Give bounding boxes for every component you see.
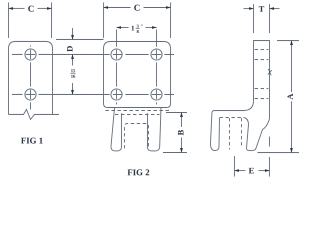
E dim extension lines: [233, 156, 235, 177]
svg-text:D: D: [64, 46, 74, 52]
X break mark: [268, 69, 272, 76]
svg-text:A: A: [285, 93, 295, 100]
svg-text:16: 16: [71, 74, 76, 79]
shared horizontal centerline bottom row: [12, 93, 174, 95]
FIG2 hidden line under plate: [105, 109, 170, 111]
FIG2 plate outline: [103, 41, 170, 107]
right view rear prong and rear wall: [244, 118, 270, 151]
T dim extension lines: [253, 4, 255, 33]
FIG1 plate outline: [8, 41, 52, 114]
A dim top extension: [277, 40, 299, 42]
fraction dim arrow down: [71, 83, 73, 95]
B dim line w arrows: [180, 113, 182, 128]
FIG1 hole 2: [25, 89, 36, 100]
D dim arrow upper: [72, 28, 74, 40]
B dim extension lines: [166, 112, 187, 114]
svg-text:″: ″: [141, 24, 144, 29]
svg-text:C: C: [28, 4, 35, 14]
right view bar hidden hole lines: [255, 49, 269, 51]
right view bar: [253, 41, 269, 119]
FIG1 hole 1: [25, 49, 36, 60]
FIG2 hole TL: [111, 49, 122, 60]
FIG2 hole-span dim line: [117, 26, 129, 28]
D dim arrow lower: [72, 54, 74, 65]
FIG2 vertical centerline left: [115, 29, 117, 104]
svg-text:T: T: [259, 4, 265, 14]
FIG2 C dim extension lines: [103, 2, 105, 38]
FIG2 hole BR: [151, 89, 162, 100]
FIG1 C dim extension lines: [8, 2, 10, 37]
svg-text:8: 8: [136, 29, 139, 34]
svg-text:E: E: [249, 165, 255, 175]
A bottom edge line: [257, 152, 299, 154]
right view socket hidden top: [219, 117, 244, 119]
FIG2 hole TR: [151, 49, 162, 60]
right view foot top and front: [210, 101, 253, 151]
T dim outside arrows: [244, 8, 254, 10]
FIG2 hole BL: [111, 89, 122, 100]
FIG2 C dim line w arrows: [104, 6, 131, 8]
FIG1 vertical centerline: [29, 45, 31, 109]
svg-text:15: 15: [71, 68, 76, 73]
FIG2 right prong: [147, 108, 161, 151]
svg-text:B: B: [175, 129, 185, 135]
svg-text:C: C: [134, 3, 141, 13]
right view hidden verticals in foot: [228, 118, 230, 150]
svg-text:FIG 2: FIG 2: [127, 167, 150, 177]
E dim line w arrows: [234, 170, 245, 172]
svg-text:3: 3: [136, 24, 139, 29]
svg-text:FIG 1: FIG 1: [21, 135, 43, 145]
D dim plate-top extension line: [56, 38, 103, 40]
FIG1 bottom edge with break line: [8, 109, 59, 119]
svg-text:1: 1: [131, 24, 135, 32]
FIG2 socket hidden inner bridge: [124, 123, 148, 148]
label fraction 15/16 vertical: [70, 68, 76, 79]
FIG2 vertical centerline right: [155, 30, 157, 105]
label 1-3/8 inch: [131, 24, 143, 34]
FIG2 socket hidden top line: [115, 113, 159, 115]
FIG1 C dim line w arrows: [9, 7, 25, 9]
FIG2 left prong: [111, 108, 122, 151]
shared horizontal centerline top row: [12, 53, 174, 55]
A dim line w arrows: [290, 41, 292, 92]
